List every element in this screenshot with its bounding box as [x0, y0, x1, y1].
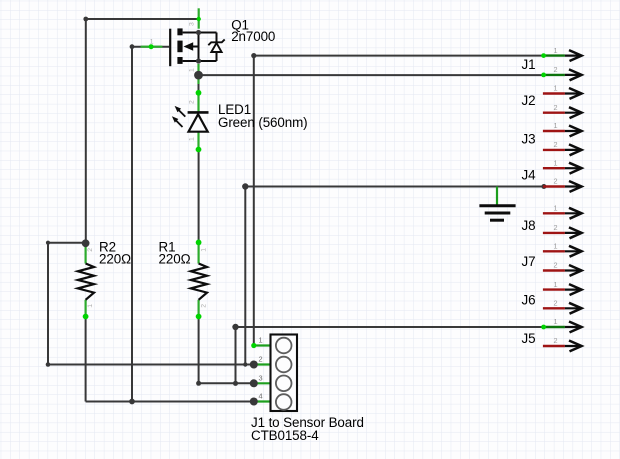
- svg-text:Green (560nm): Green (560nm): [218, 115, 308, 130]
- svg-text:2: 2: [553, 261, 557, 270]
- svg-text:1: 1: [553, 158, 557, 167]
- svg-text:1: 1: [553, 242, 557, 251]
- svg-text:1: 1: [189, 137, 196, 141]
- svg-text:2: 2: [87, 248, 94, 252]
- svg-text:2: 2: [553, 299, 557, 308]
- svg-text:1: 1: [553, 46, 557, 55]
- svg-text:2: 2: [189, 100, 196, 104]
- svg-text:1: 1: [150, 38, 154, 45]
- svg-text:3: 3: [258, 373, 262, 382]
- svg-text:J8: J8: [522, 218, 536, 233]
- svg-text:3: 3: [189, 22, 196, 26]
- svg-text:J6: J6: [522, 292, 536, 307]
- svg-text:2: 2: [258, 355, 262, 364]
- svg-text:CTB0158-4: CTB0158-4: [251, 428, 319, 443]
- svg-text:1: 1: [87, 304, 94, 308]
- svg-text:1: 1: [200, 248, 207, 252]
- svg-text:J7: J7: [522, 254, 536, 269]
- svg-text:1: 1: [553, 280, 557, 289]
- svg-text:1: 1: [553, 84, 557, 93]
- svg-text:2: 2: [553, 140, 557, 149]
- svg-text:2: 2: [553, 177, 557, 186]
- svg-text:2: 2: [553, 65, 557, 74]
- svg-text:2: 2: [553, 223, 557, 232]
- svg-text:J5: J5: [522, 331, 536, 346]
- svg-text:2: 2: [553, 336, 557, 345]
- svg-text:2n7000: 2n7000: [231, 29, 275, 44]
- svg-text:1: 1: [258, 336, 262, 345]
- svg-text:J4: J4: [522, 167, 537, 182]
- svg-text:220Ω: 220Ω: [159, 252, 191, 267]
- svg-text:220Ω: 220Ω: [99, 252, 131, 267]
- svg-text:J1: J1: [522, 57, 536, 72]
- svg-text:1: 1: [189, 68, 196, 72]
- svg-text:J2: J2: [522, 93, 536, 108]
- svg-text:1: 1: [553, 204, 557, 213]
- svg-text:2: 2: [553, 103, 557, 112]
- svg-text:J3: J3: [522, 131, 536, 146]
- svg-text:1: 1: [553, 317, 557, 326]
- svg-text:2: 2: [200, 304, 207, 308]
- svg-text:1: 1: [553, 121, 557, 130]
- svg-text:4: 4: [258, 392, 262, 401]
